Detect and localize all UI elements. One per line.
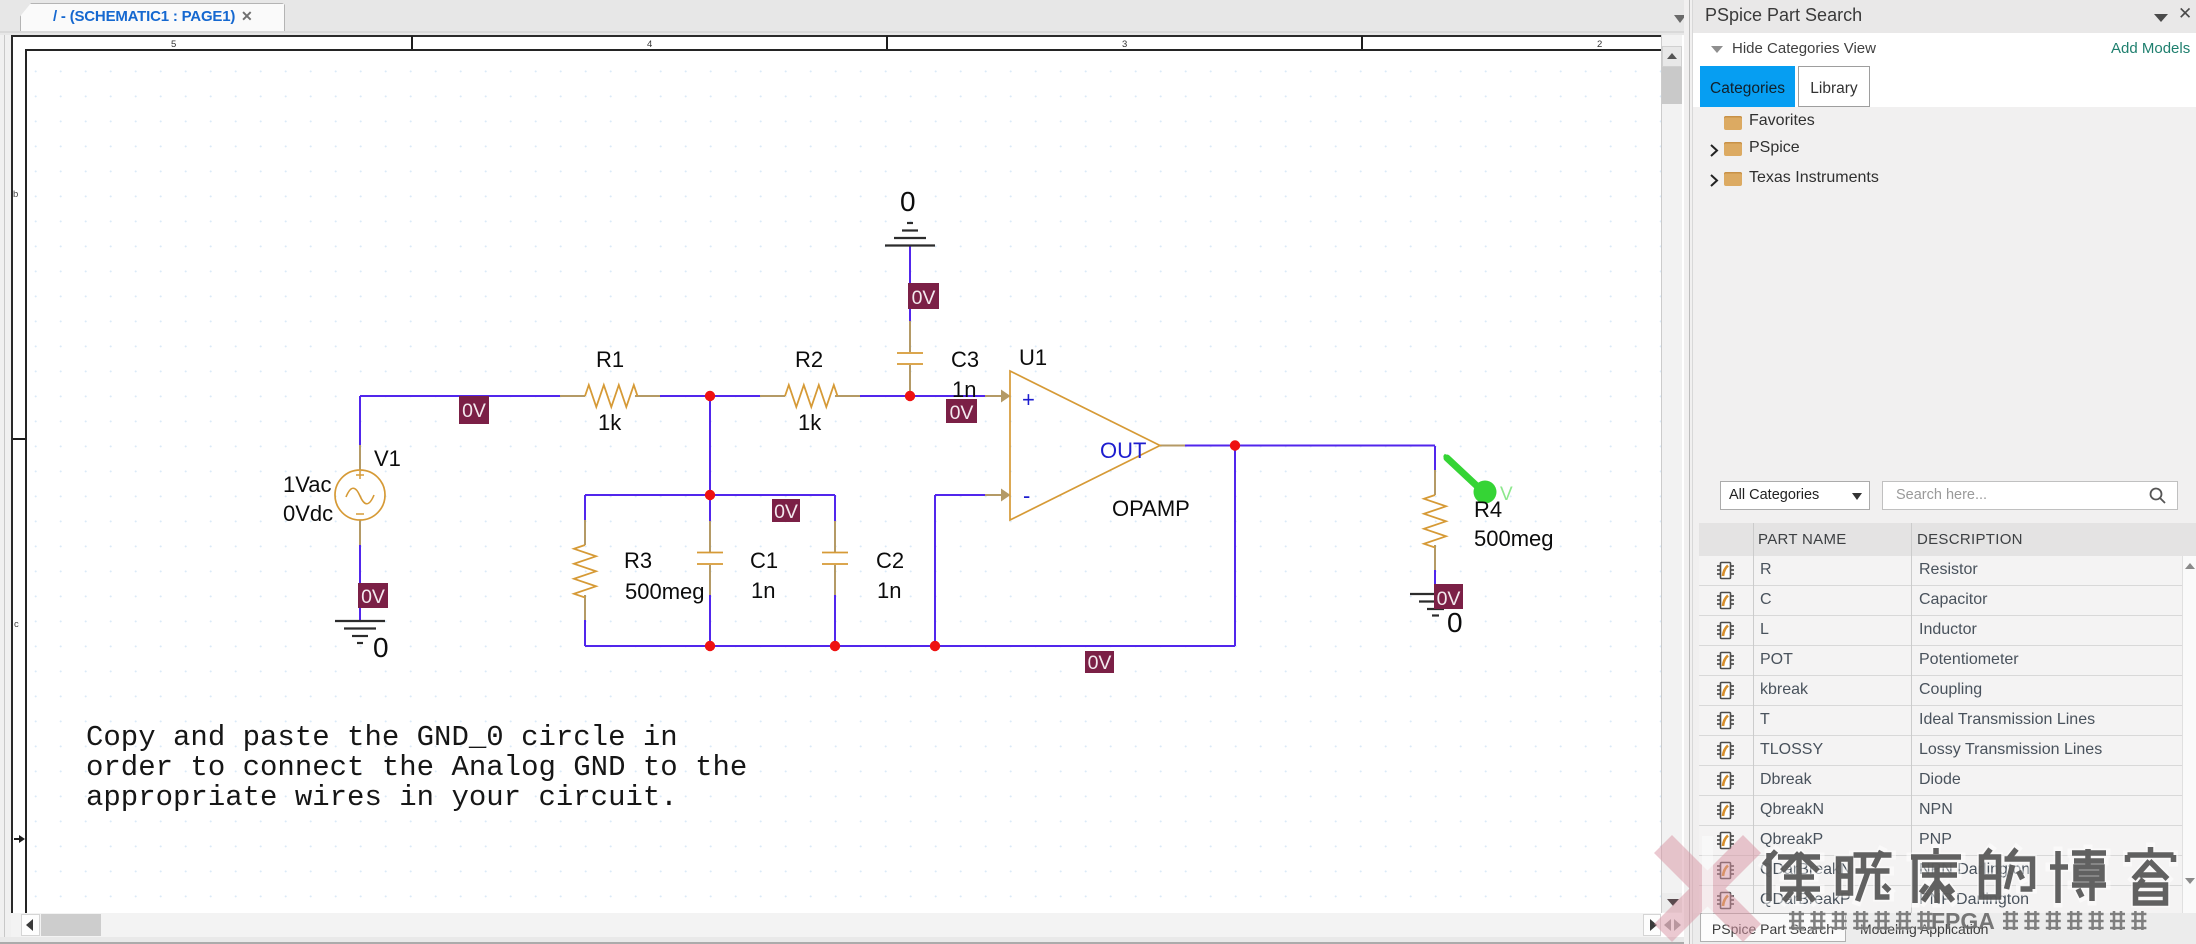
svg-text:FPGA: FPGA — [1931, 908, 1995, 934]
